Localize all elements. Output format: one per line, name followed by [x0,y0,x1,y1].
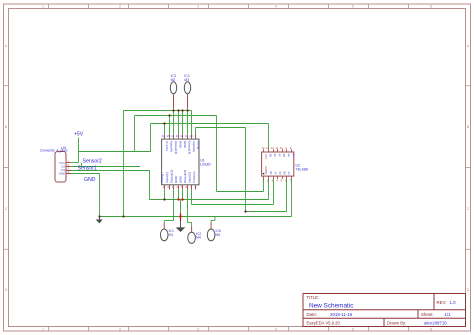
svg-text:Date:: Date: [307,312,318,317]
svg-text:2: 2 [119,5,121,9]
connector U4 pin 2 [66,166,71,168]
svg-text:Connector_4_pines: Connector_4_pines [40,149,68,153]
wire motor3 lead upper [210,221,212,223]
svg-text:2B: 2B [283,171,287,174]
wire Sensor1 horizontal [71,170,150,172]
frame ticks left [4,86,9,250]
wire rail C right drop to U2 top pin [268,124,270,150]
svg-text:10: 10 [189,134,193,138]
svg-text:Sensor1: Sensor1 [78,165,97,171]
ic U1 top pins [165,134,196,139]
svg-text:C: C [467,207,470,211]
ic U1 bottom pin numbers [163,185,197,189]
wire motor1 lead upper [163,221,165,224]
wire motor2 lead upper [191,223,193,227]
node rail E junction [244,210,246,212]
svg-text:1A: 1A [264,171,268,174]
wire riser to U2 bottom pin 4 [273,179,275,205]
svg-text:11: 11 [185,134,188,138]
motor IC1 lead [163,224,165,230]
title block texts [307,295,457,325]
ic U2 body [262,152,294,176]
motor IC6 lead [210,222,212,229]
svg-text:6: 6 [430,5,432,9]
svg-text:GND: GND [183,141,187,149]
svg-text:1/1: 1/1 [445,312,452,317]
svg-text:Output(1): Output(1) [169,170,173,183]
wire motor1 jog [164,220,173,222]
wire rail D col8 riser [195,128,197,135]
svg-text:M3: M3 [184,78,189,82]
wire U1 col3 output drop to motor1 [173,190,175,221]
wire GND riser to U2 bottom pin 7 [291,179,293,217]
motor IC6 bottom body [207,229,215,241]
node Sensor1 rail / col2 junction [163,198,165,200]
ground symbol 1 [96,217,103,224]
wire GND symbol 2 drop [180,200,182,214]
wire Sensor1 bottom run [150,199,269,201]
wire U1 col7 bottom drop [191,190,193,205]
svg-text:Drawn By:: Drawn By: [387,320,406,325]
wire riser to U2 bottom pin 1 [263,179,265,192]
connector U4 pin numbers [68,159,70,174]
frame ticks top [49,4,409,9]
wire U1 col3 top segment [173,108,175,134]
node rail A / col4 junction [177,109,179,111]
motor IC2 lead [191,226,193,232]
connector U4 pin names [59,161,66,176]
wire motor3 jog [211,220,215,222]
svg-text:GND: GND [178,141,182,149]
svg-text:3B: 3B [282,154,286,157]
wire riser to U2 bottom pin 3 [268,179,270,200]
svg-text:4Y: 4Y [278,154,282,157]
node GND pin col5 junction [181,198,183,200]
ic U1 top pin names [165,141,201,154]
svg-text:13: 13 [176,134,180,138]
svg-text:2: 2 [119,327,121,331]
connector U4 body [55,152,66,183]
svg-text:3: 3 [197,5,199,9]
connector U4 pin 3 [66,170,71,172]
wire rail C left drop [150,124,152,152]
svg-text:TITLE:: TITLE: [307,295,320,300]
svg-text:C: C [5,207,8,211]
frame ticks bottom [49,327,409,332]
frame column numbers top [42,5,432,9]
connector U4 pin 1 [66,162,71,164]
wire U1 col2 top segment [169,116,171,135]
svg-text:D: D [467,288,470,292]
wire Sensor1 drop [149,171,151,200]
wire rail D right drop [245,128,247,212]
motor IC4 lead [187,94,189,108]
node rail B / col2 junction [168,114,170,116]
svg-text:Sensor2: Sensor2 [83,159,102,165]
svg-text:Vc,Pwr: Vc,Pwr [165,141,169,151]
node GND pin col4 junction [177,198,179,200]
wire U1 col5 top segment [182,111,184,135]
svg-text:Input(1): Input(1) [165,172,169,183]
wire U1 col6 output drop to motor2 [187,190,189,223]
ic U2 bottom pin names [264,171,291,174]
svg-text:1: 1 [42,5,44,9]
svg-text:Input(2): Input(2) [188,172,192,183]
title block outline [303,294,466,327]
ic U1 bottom pin names [160,170,196,183]
svg-text:REV:: REV: [437,300,447,305]
wire U1 col5 GND drop [182,190,184,200]
ic U1 body [162,139,199,185]
svg-text:EasyEDA V5.9.20: EasyEDA V5.9.20 [307,320,341,325]
motor IC4 top-right body [184,82,190,94]
ground symbol 2 [176,227,186,232]
node rail A / col3 junction [172,109,174,111]
svg-text:1.0: 1.0 [450,300,457,305]
ic U2 bottom pins [264,176,292,179]
connector U4 pin 4 [66,173,71,175]
svg-text:3Y: 3Y [291,154,295,157]
wire GND from U4 pin4 [71,173,100,175]
ic U2 top pin names [268,154,295,157]
svg-text:Vc,hig: Vc,hig [160,174,164,183]
wire U1 col4 top segment [178,111,180,135]
wire rail E bottom run [246,211,287,213]
ic U1 bottom pins [165,185,196,190]
wire +5V riser from U4 pin1 [78,138,80,163]
svg-text:4B: 4B [268,154,272,157]
svg-text:5: 5 [352,5,354,9]
junction dots [98,109,246,217]
svg-text:L293D: L293D [200,163,211,167]
wire rail A left drop to GND rail [123,111,125,217]
ic U2 power pin names [264,154,268,172]
wire GND drop at left [99,174,101,217]
svg-text:M4: M4 [196,236,201,240]
svg-text:2A: 2A [278,171,282,174]
wire U4 pin1 stub run [71,162,79,164]
svg-text:D: D [5,288,8,292]
node rail C / col1 junction [163,122,165,124]
wire riser to U2 bottom pin 6 [286,179,288,212]
frame row letters left [5,44,8,292]
svg-text:alex189710: alex189710 [424,320,447,325]
net label Sensor2 anchor tick [81,163,83,167]
wire GND bottom rail [100,216,292,218]
node GND rail / left drop junction [98,215,100,217]
node rail A / col5 junction [181,109,183,111]
motor IC1 bottom body [160,229,168,241]
svg-text:12: 12 [180,134,184,138]
wire rail B left drop [134,116,136,152]
svg-text:2018-11-16: 2018-11-16 [330,312,353,317]
node GND rail / rail A drop junction [122,215,124,217]
svg-text:14: 14 [171,134,175,138]
svg-text:3: 3 [197,327,199,331]
svg-text:M2: M2 [171,78,176,82]
svg-text:3A: 3A [287,154,291,157]
svg-text:GND: GND [59,172,65,176]
ic U2 top pin numbers [262,146,292,150]
svg-text:1B: 1B [269,171,273,174]
wire motor3 riser to GND rail [214,217,216,221]
motor IC3 lead [173,94,175,108]
wire rail A right drop to U1 pin col7 [191,111,193,135]
node GND rail / ground 2 junction [179,215,181,217]
wire U1 col6 top segment [187,108,189,134]
svg-text:1Y: 1Y [273,171,277,174]
wire +5V horizontal [79,151,151,153]
svg-text:GND: GND [174,175,178,183]
motor IC3 top-left body [170,82,176,94]
svg-text:15: 15 [167,134,171,138]
svg-text:GND: GND [264,166,268,172]
wire U1 col1 top segment [164,124,166,135]
wire Sensor2 net [71,166,141,168]
svg-text:GND: GND [179,175,183,183]
svg-text:Output(3): Output(3) [188,141,192,154]
svg-text:GND: GND [84,177,96,183]
svg-text:Sheet:: Sheet: [421,312,434,317]
wire rail C horizontal [151,123,269,125]
wire rail B bottom run to U2 [217,191,264,193]
wire red GND jumper segment [180,213,182,221]
ic U2 top pins [264,149,292,152]
wire rail B right drop [216,116,218,192]
wire U1 col2 bottom segment [164,190,166,200]
svg-text:74LS86: 74LS86 [296,168,308,172]
svg-text:4: 4 [275,327,277,331]
wire motor2 jog [188,222,192,224]
svg-text:4: 4 [275,5,277,9]
ic U1 top pin numbers [162,134,197,138]
wire rail D horizontal [196,127,246,129]
wire rail B horizontal [135,115,217,117]
svg-text:4A: 4A [273,154,277,157]
frame row letters right [467,44,470,292]
svg-text:New Schematic: New Schematic [309,302,354,309]
svg-text:+5V: +5V [74,132,84,138]
svg-text:16: 16 [162,134,166,138]
ic U2 bottom pin numbers [262,179,292,183]
frame ticks right [466,86,471,250]
svg-text:Vmotors: Vmotors [192,171,196,183]
svg-text:2Y: 2Y [287,171,291,174]
svg-text:Input(4): Input(4) [170,141,174,152]
svg-text:M5: M5 [216,233,221,237]
node rail A / col6 junction [186,109,188,111]
svg-text:VCC: VCC [264,154,268,160]
frame column numbers bottom [42,327,432,331]
svg-text:Output(2): Output(2) [183,170,187,183]
wire col7 bottom run to U2 [192,204,274,206]
svg-text:6: 6 [430,327,432,331]
svg-text:1: 1 [42,327,44,331]
svg-text:In,Hig: In,Hig [197,141,201,149]
wire U1 col4 GND drop [178,190,180,200]
svg-text:Input(3): Input(3) [192,141,196,152]
motor IC2 bottom body [188,232,196,243]
svg-text:M1: M1 [169,233,174,237]
svg-text:5: 5 [352,327,354,331]
wire rail A horizontal [124,110,192,112]
svg-text:Output(4): Output(4) [174,141,178,154]
ic U2 pin1 marker [263,173,265,175]
